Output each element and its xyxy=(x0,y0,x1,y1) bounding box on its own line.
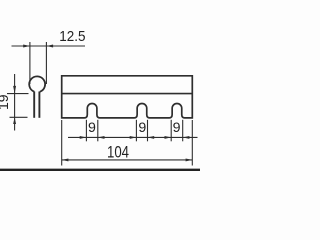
dimension line 12.5 xyxy=(12,45,86,47)
extension line left of dim 12.5 xyxy=(29,42,31,84)
front view outline with three omega slots xyxy=(62,76,193,118)
extension tick top of dim 19 xyxy=(7,93,29,95)
shared dimension line for the three 9 dims xyxy=(68,136,198,138)
svg-text:12.5: 12.5 xyxy=(59,28,85,45)
arrow bottom 19 xyxy=(13,117,16,124)
svg-text:9: 9 xyxy=(88,120,96,136)
extension line right of dim 12.5 xyxy=(45,42,47,84)
clip ring (side view circle) xyxy=(29,76,45,91)
arrows 9 dims xyxy=(80,136,87,139)
arrow left 12.5 xyxy=(23,45,30,48)
svg-text:9: 9 xyxy=(138,120,146,136)
104 extension lines xyxy=(61,120,63,166)
svg-text:9: 9 xyxy=(173,120,181,136)
arrow right 12.5 xyxy=(46,45,53,48)
extension tick bottom of dim 19 xyxy=(10,116,28,118)
clip leg left xyxy=(33,92,35,118)
svg-text:19: 19 xyxy=(0,94,11,110)
drawing frame bottom border xyxy=(0,169,200,171)
svg-text:104: 104 xyxy=(107,142,129,161)
dimension line 19 (vertical) xyxy=(14,74,16,131)
front view mid line xyxy=(62,93,193,95)
arrow top 19 xyxy=(13,86,16,94)
9-dim extension lines xyxy=(85,120,87,142)
clip leg right xyxy=(38,92,40,118)
arrows 104 xyxy=(62,158,69,161)
dimension line 104 xyxy=(62,159,193,161)
